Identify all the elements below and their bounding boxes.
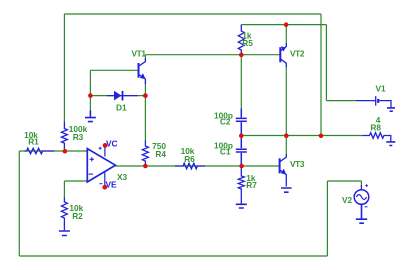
ground below R7 (236, 204, 247, 208)
svg-text:VC: VC (106, 138, 118, 148)
junction node R1/R3/+input (63, 149, 68, 154)
ground below VT3 emitter (281, 188, 292, 192)
svg-text:VT3: VT3 (290, 159, 305, 169)
wire VT2 emitter top (285, 25, 287, 44)
ground below R2 (59, 231, 70, 236)
resistor R1 (25, 148, 55, 154)
diode D1 triangle and bar (114, 91, 121, 101)
wire V1 rail vertical (325, 25, 327, 101)
capacitor C2 (236, 109, 247, 136)
ground at D1 anode (85, 111, 96, 122)
wire D1 anode to ground (89, 96, 91, 111)
svg-text:X3: X3 (117, 172, 128, 182)
svg-text:C1: C1 (220, 147, 231, 157)
diode D1 line (107, 95, 138, 97)
resistor R6 (175, 163, 205, 169)
svg-text:V2: V2 (342, 195, 353, 205)
wire left feedback vertical (63, 14, 65, 122)
wire R3 bottom to node (63, 148, 65, 152)
op-amp VE pin line (104, 172, 106, 188)
wire bottom right vertical to V2 (326, 181, 328, 256)
junction node R4/output (143, 164, 148, 169)
svg-text:D1: D1 (116, 103, 127, 113)
wire left input vertical (18, 151, 20, 256)
wire op-amp output (115, 165, 241, 167)
wire R1 input net horizontal (19, 150, 87, 152)
wire top rail (64, 13, 321, 15)
wire to V1 battery (326, 100, 356, 102)
wire VT3 collector up (285, 136, 287, 155)
junction node C1/R7/VT3 base (239, 164, 244, 169)
transistor VT2 base bar (279, 47, 281, 62)
svg-text:C2: C2 (220, 117, 231, 127)
junction node right vertical / output rail (319, 134, 324, 139)
ground below R8 (386, 142, 395, 146)
svg-text:VT1: VT1 (132, 49, 147, 59)
junction node C2/C1 (239, 133, 244, 138)
source V2 circle (354, 190, 369, 205)
svg-text:R1: R1 (28, 137, 39, 147)
junction node push-pull output (284, 133, 289, 138)
resistor R4 (142, 141, 148, 167)
wire V2 top horizontal (327, 180, 361, 182)
resistor R8 (363, 133, 391, 142)
ground at V1 (387, 108, 395, 111)
op-amp VC pin dot (103, 143, 108, 148)
source V2 plus mark (365, 184, 368, 187)
svg-text:R6: R6 (184, 154, 195, 164)
svg-text:V1: V1 (376, 84, 387, 94)
transistor VT1 leads (139, 58, 146, 84)
resistor R5 (238, 25, 244, 55)
VT1 emitter arrow (140, 73, 146, 79)
junction node VT2 emitter top (284, 22, 289, 27)
transistor VT3 leads (280, 154, 287, 186)
wire VT2 collector down (285, 67, 287, 136)
op-amp X3 triangle (87, 149, 115, 182)
wire op-amp minus input (64, 180, 87, 182)
resistor R7 (238, 166, 244, 204)
op-amp VE pin dot (102, 185, 107, 190)
wire VT1 emitter / D1 cathode down to R4 (144, 82, 146, 141)
capacitor C1 (236, 136, 247, 167)
svg-text:R8: R8 (370, 122, 381, 132)
wire base node down to D1 anode (89, 70, 91, 95)
svg-text:R3: R3 (73, 132, 84, 142)
battery V1 short plate (377, 99, 379, 103)
wire VT1 collector to VT2 base (145, 54, 280, 56)
transistor VT3 base bar (279, 158, 281, 173)
VT2 emitter arrow (PNP, pointing into bar) (281, 46, 286, 51)
VC tiny plus (99, 147, 102, 150)
wire bottom rail (19, 255, 327, 257)
wire D1 net horizontal (90, 95, 145, 97)
VE tiny minus (100, 183, 103, 185)
op-amp minus mark (89, 173, 93, 175)
svg-text:R7: R7 (246, 180, 257, 190)
svg-text:VE: VE (106, 179, 118, 189)
source V2 minus mark (365, 206, 368, 208)
wire VT1 collector stub (144, 55, 146, 60)
resistor R2 (61, 198, 67, 231)
op-amp plus mark (90, 157, 94, 161)
source V2 sine (356, 195, 366, 200)
battery V1 plates and leads (356, 96, 391, 107)
svg-text:R2: R2 (72, 211, 83, 221)
wire right vertical from top rail (320, 14, 322, 136)
junction node D1 anode (88, 93, 93, 98)
VT3 emitter arrow (281, 169, 287, 175)
svg-text:R5: R5 (242, 38, 253, 48)
resistor R3 (61, 122, 67, 149)
wire node down to R2 (63, 181, 65, 198)
source V2 stem and ground (356, 204, 367, 223)
wire V2 top stub (360, 181, 362, 185)
wire V1 rail horizontal (241, 24, 326, 26)
wire VT3 base (241, 165, 279, 167)
junction node R5/VT2 base (239, 53, 244, 58)
wire push-pull output rail (241, 135, 362, 137)
transistor VT2 leads (280, 43, 286, 67)
junction node D1 cathode (143, 93, 148, 98)
wire VT1 base (90, 69, 137, 71)
op-amp VC pin line (104, 145, 106, 156)
svg-text:R4: R4 (155, 149, 166, 159)
wire R5 bottom node down to C2 (240, 55, 242, 109)
source V2 top lead (360, 185, 362, 190)
transistor VT1 base bar (138, 63, 140, 78)
svg-text:VT2: VT2 (290, 49, 305, 59)
